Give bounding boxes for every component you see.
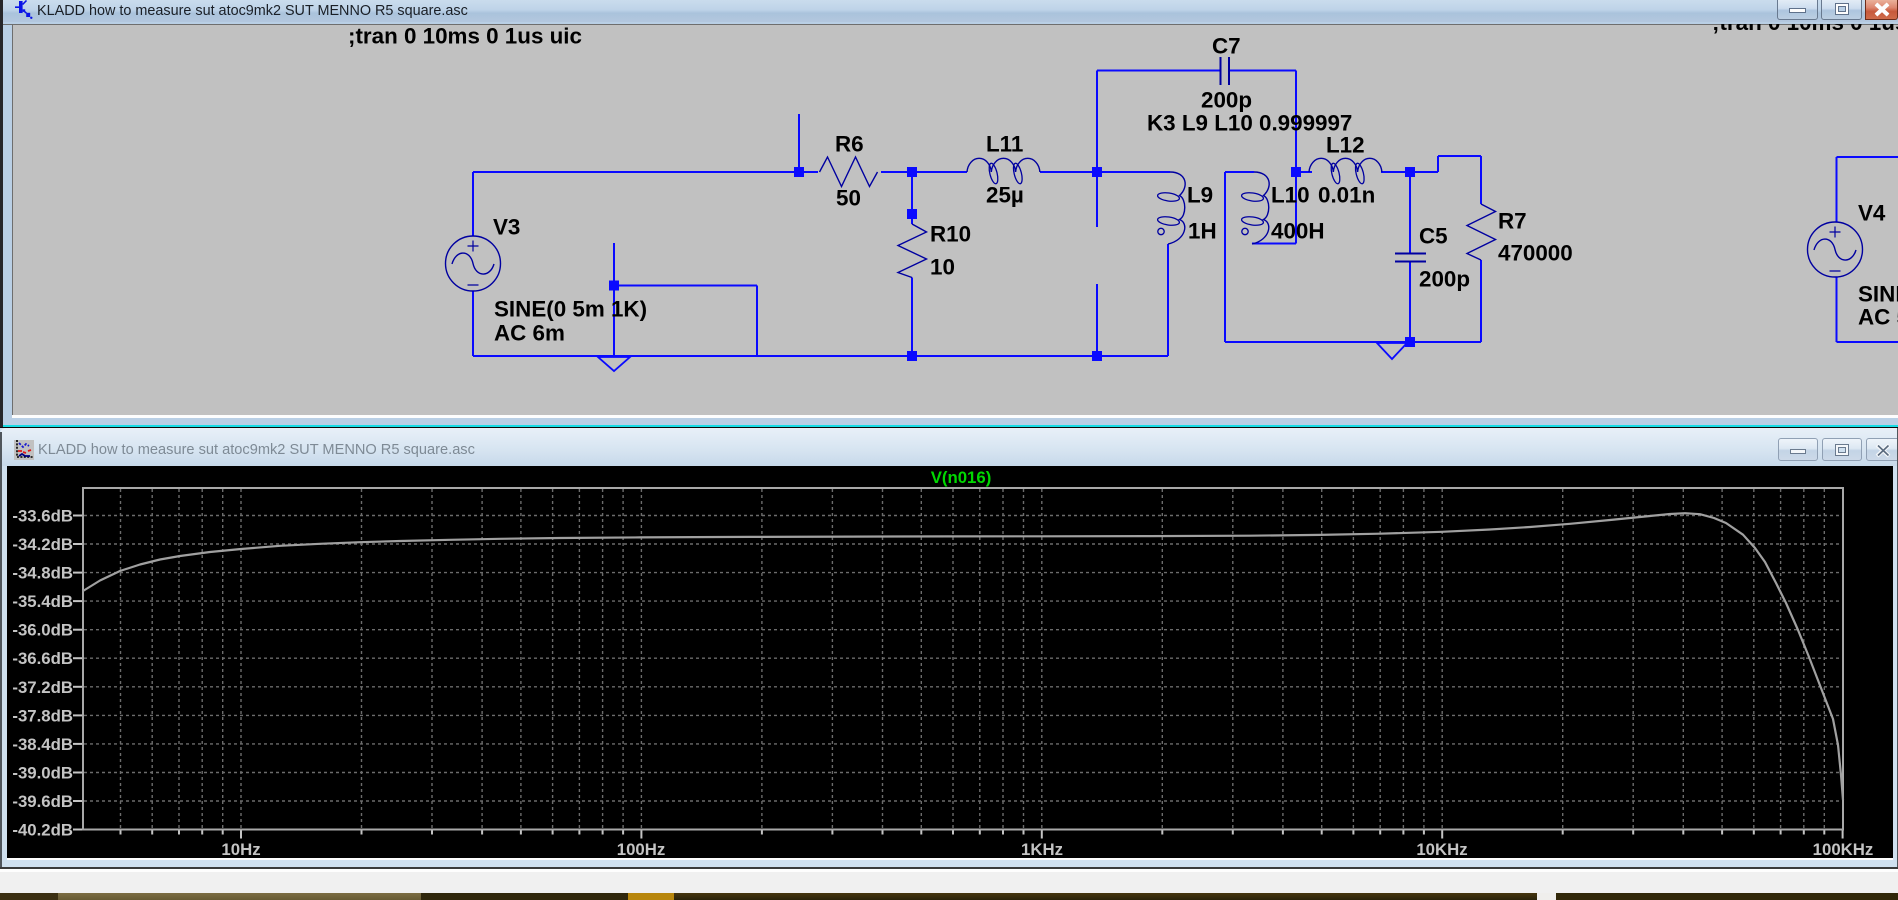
svg-text:SINE(0 5m 1K): SINE(0 5m 1K): [494, 297, 647, 322]
svg-text:L12: L12: [1326, 133, 1365, 158]
svg-text:;tran 0 10ms 0 1us uic: ;tran 0 10ms 0 1us uic: [348, 24, 582, 49]
svg-text:V3: V3: [493, 215, 520, 240]
svg-text:C5: C5: [1419, 224, 1448, 249]
svg-text:R6: R6: [835, 132, 864, 157]
svg-text:-39.0dB: -39.0dB: [12, 764, 73, 783]
svg-text:1KHz: 1KHz: [1021, 840, 1063, 859]
svg-text:K3 L9 L10 0.999997: K3 L9 L10 0.999997: [1147, 111, 1352, 136]
svg-text:V(n016): V(n016): [931, 468, 992, 487]
svg-text:-38.4dB: -38.4dB: [12, 735, 73, 754]
svg-text:1H: 1H: [1188, 219, 1217, 244]
svg-text:L9: L9: [1187, 183, 1213, 208]
svg-text:100KHz: 100KHz: [1813, 840, 1874, 859]
svg-text:;tran 0 10ms 0 1us uic: ;tran 0 10ms 0 1us uic: [1712, 24, 1898, 35]
svg-text:100Hz: 100Hz: [617, 840, 666, 859]
svg-text:L11: L11: [986, 132, 1023, 157]
svg-text:470000: 470000: [1498, 241, 1573, 266]
svg-text:0.01n: 0.01n: [1318, 183, 1375, 208]
svg-text:-36.6dB: -36.6dB: [12, 649, 73, 668]
svg-text:L10: L10: [1271, 183, 1310, 208]
svg-text:R7: R7: [1498, 209, 1527, 234]
svg-text:-40.2dB: -40.2dB: [12, 821, 73, 840]
svg-text:10: 10: [930, 255, 955, 280]
svg-text:R10: R10: [930, 222, 971, 247]
svg-text:400H: 400H: [1271, 219, 1325, 244]
svg-text:200p: 200p: [1419, 267, 1470, 292]
svg-text:V4: V4: [1858, 201, 1886, 226]
svg-text:-33.6dB: -33.6dB: [12, 507, 73, 526]
svg-text:-35.4dB: -35.4dB: [12, 592, 73, 611]
svg-text:-37.2dB: -37.2dB: [12, 678, 73, 697]
svg-text:10Hz: 10Hz: [221, 840, 260, 859]
svg-text:AC 5m: AC 5m: [1858, 305, 1898, 330]
svg-text:-37.8dB: -37.8dB: [12, 706, 73, 725]
svg-text:200p: 200p: [1201, 88, 1252, 113]
svg-text:-36.0dB: -36.0dB: [12, 621, 73, 640]
svg-text:10KHz: 10KHz: [1416, 840, 1467, 859]
svg-text:-34.8dB: -34.8dB: [12, 564, 73, 583]
svg-text:C7: C7: [1212, 34, 1241, 59]
svg-text:-39.6dB: -39.6dB: [12, 792, 73, 811]
svg-text:AC 6m: AC 6m: [494, 321, 565, 346]
svg-text:50: 50: [836, 186, 861, 211]
svg-text:SINE(: SINE(: [1858, 282, 1898, 307]
svg-text:-34.2dB: -34.2dB: [12, 535, 73, 554]
svg-text:25µ: 25µ: [986, 183, 1024, 208]
